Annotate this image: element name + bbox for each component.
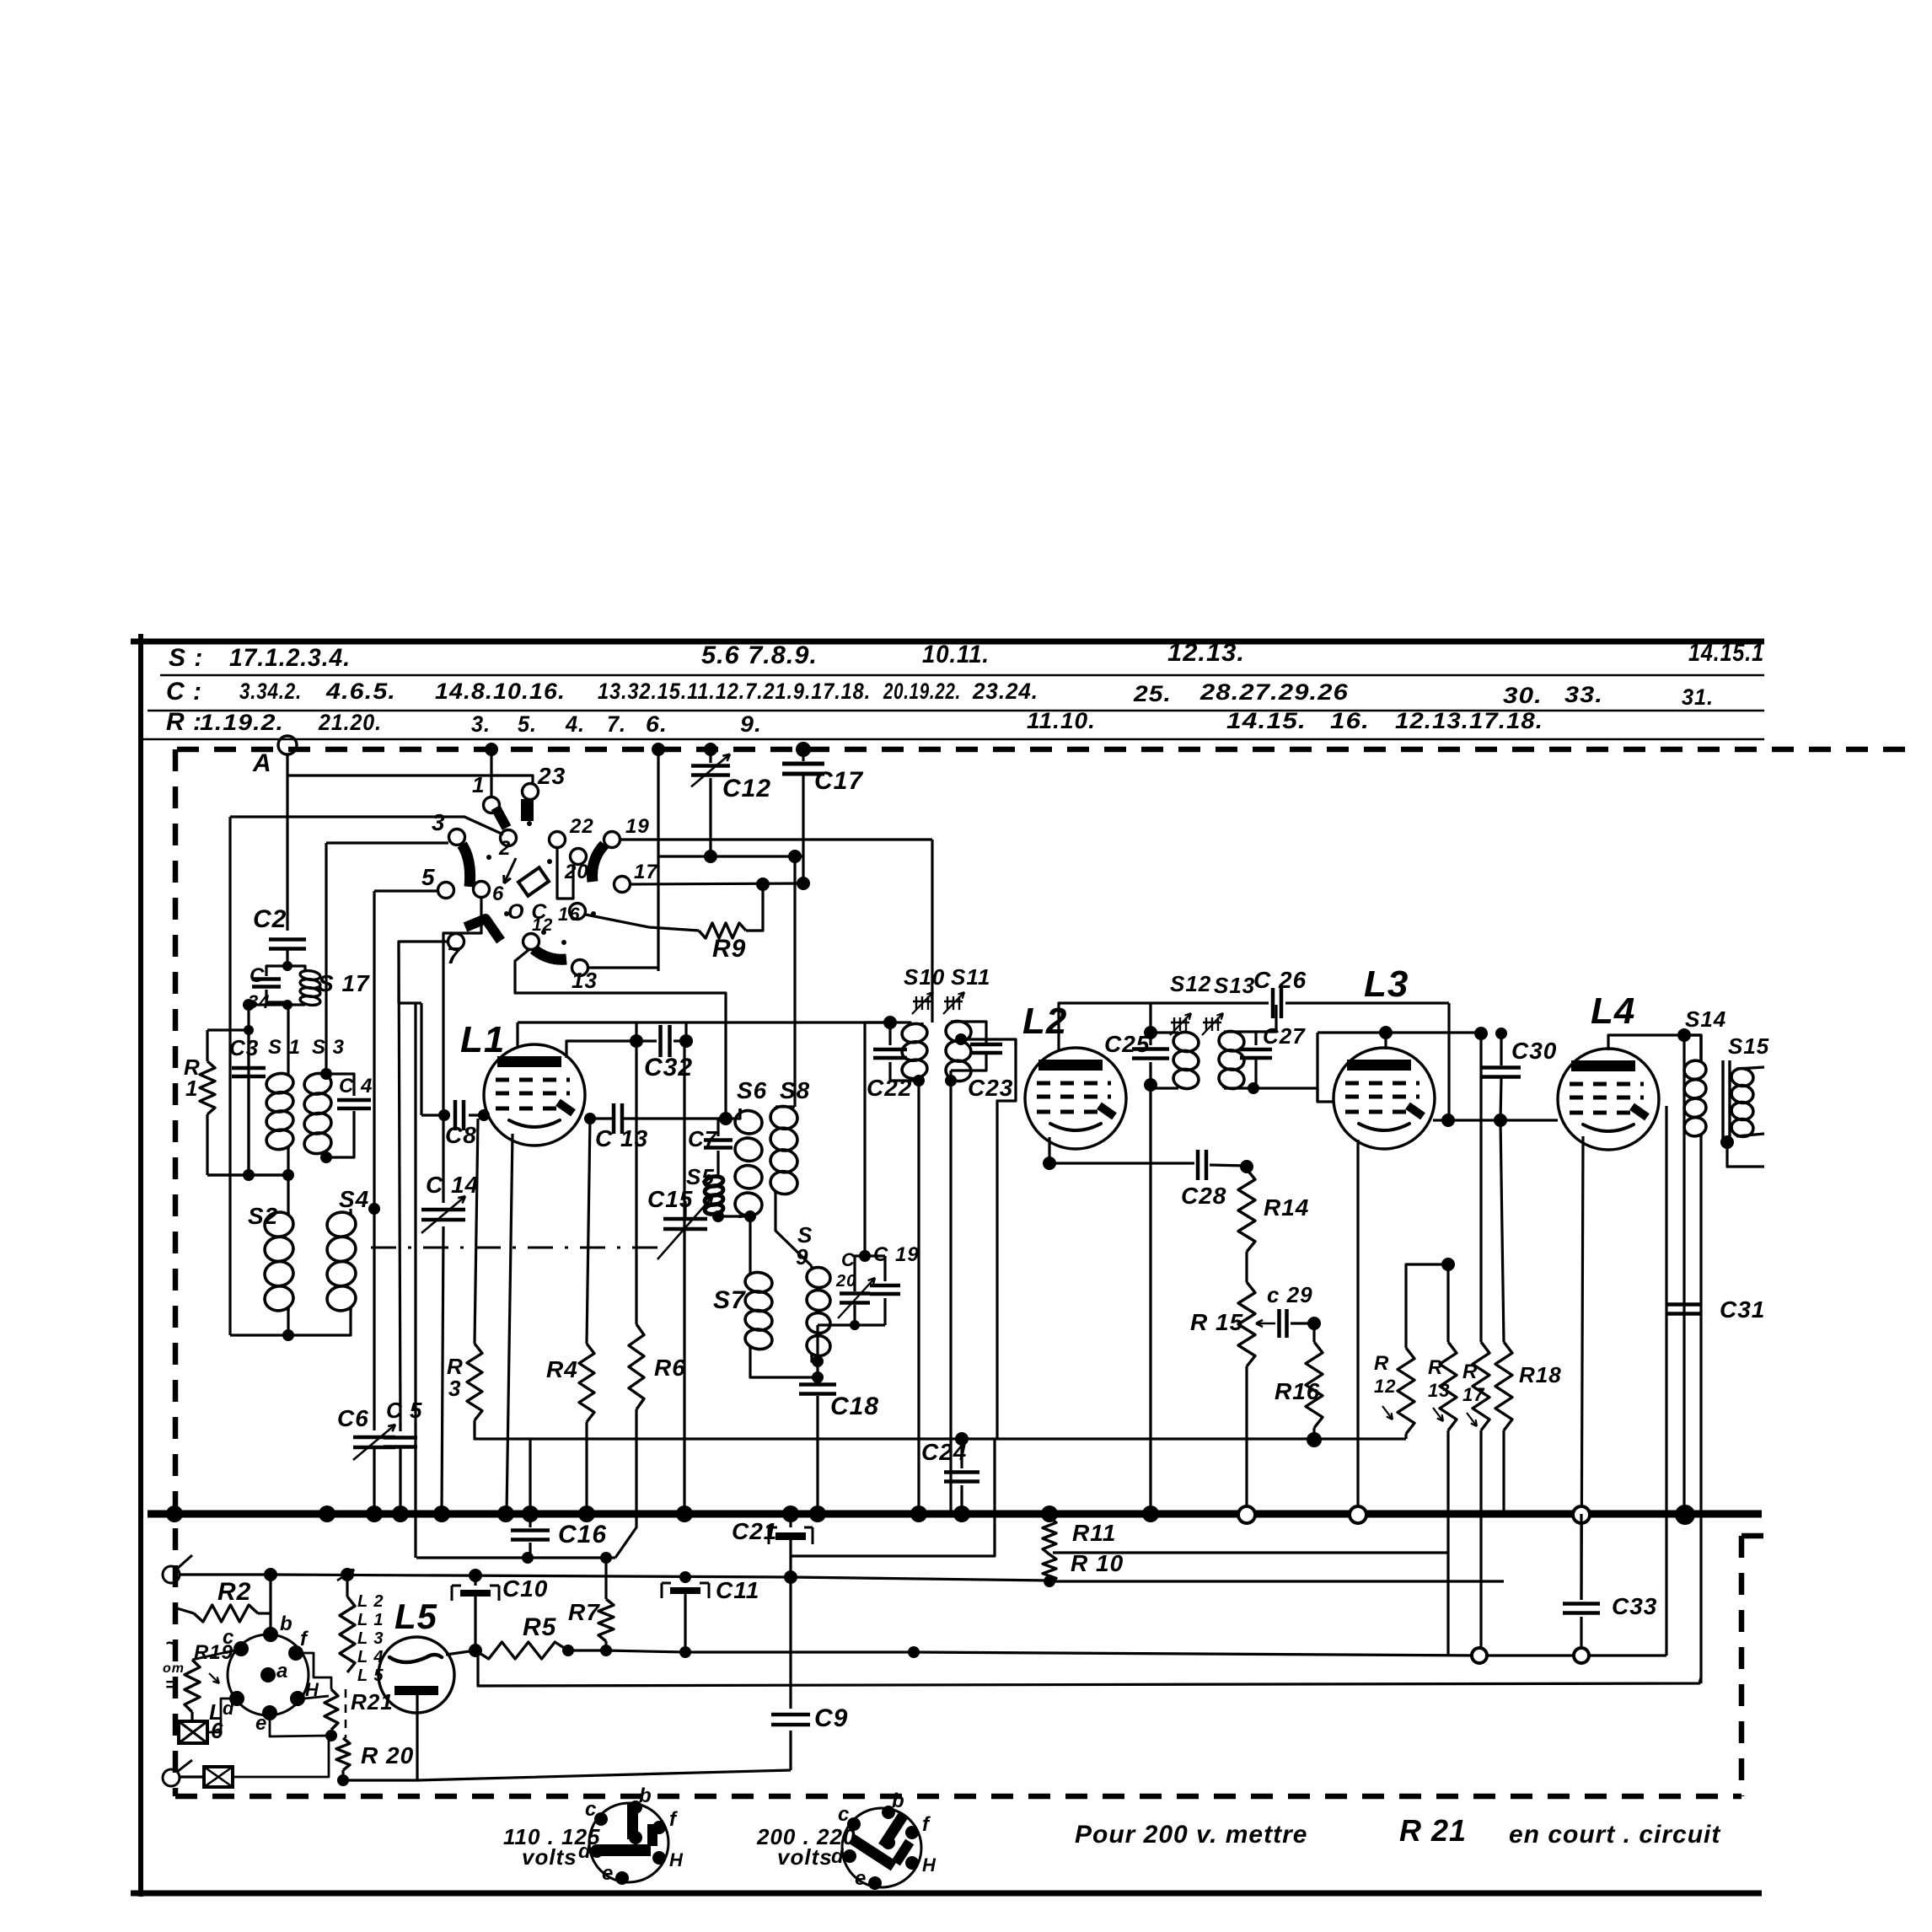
svg-text:f: f [300, 1628, 309, 1650]
svg-text:30.: 30. [1503, 683, 1543, 708]
wire S13 to L3 grid loop [1226, 1070, 1256, 1088]
svg-text:C17: C17 [814, 767, 863, 795]
svg-text:R :: R : [166, 708, 202, 736]
wire L2 cathode bias network [1049, 1162, 1190, 1164]
page border left [138, 634, 143, 1897]
wire L2 plate to C25 S12 [1059, 1003, 1151, 1050]
svg-text:S12: S12 [1170, 971, 1211, 996]
resistor R17 [1473, 1342, 1489, 1430]
wire rotary 12 to mixer grid [515, 950, 726, 1119]
svg-text:14.15.1: 14.15.1 [1688, 639, 1764, 667]
svg-text:5.6 7.8.9.: 5.6 7.8.9. [701, 641, 818, 669]
svg-text:S :: S : [169, 644, 203, 672]
capacitor C18 [816, 1361, 818, 1377]
svg-text:17: 17 [634, 861, 658, 883]
svg-text:31.: 31. [1682, 684, 1714, 710]
svg-text:R21: R21 [351, 1689, 394, 1715]
wire AVC bus horizontal [1146, 1437, 1406, 1440]
svg-text:H: H [922, 1854, 936, 1876]
svg-text:L 2: L 2 [357, 1592, 384, 1611]
svg-text:R11: R11 [1072, 1520, 1116, 1546]
svg-text:d: d [831, 1845, 845, 1868]
svg-text:14.8.10.16.: 14.8.10.16. [435, 679, 566, 704]
wire L5 anode right [442, 1650, 475, 1657]
svg-text:S 3: S 3 [312, 1036, 345, 1059]
svg-text:3.: 3. [471, 711, 491, 737]
svg-text:14.15.: 14.15. [1226, 708, 1307, 733]
IF transformer 1 primary coil [883, 1016, 897, 1029]
resistor R6 [635, 1048, 637, 1324]
svg-text:C12: C12 [722, 775, 771, 802]
IF transformer 2 secondary coil [1222, 1032, 1226, 1034]
svg-text:C27: C27 [1263, 1023, 1306, 1049]
rotary rotor index arrow [504, 858, 516, 883]
wire S4 top to rotary 5 [374, 891, 378, 1209]
table rule under R row [141, 738, 1764, 741]
svg-text:R: R [1374, 1352, 1389, 1375]
svg-text:7: 7 [447, 942, 461, 969]
svg-text:25.: 25. [1133, 681, 1172, 706]
svg-text:R7: R7 [568, 1599, 600, 1625]
svg-text:C: C [250, 964, 265, 987]
output transformer core [1721, 1060, 1724, 1145]
resistor R4 [587, 1119, 590, 1344]
svg-text:f: f [922, 1813, 931, 1836]
rotary rotor segment 7 [465, 919, 501, 941]
table rule under C row [148, 710, 1764, 712]
svg-text:e: e [855, 1867, 867, 1890]
svg-text:6: 6 [492, 883, 504, 905]
svg-text:S8: S8 [780, 1077, 810, 1103]
svg-text:L 1: L 1 [357, 1611, 384, 1629]
svg-text:f: f [669, 1808, 678, 1831]
wire L2 cathode down [1048, 1137, 1050, 1163]
potentiometer R15 [1238, 1282, 1255, 1366]
rotary rotor diamond [518, 867, 549, 896]
wire L3 cathode to bus [1356, 1140, 1359, 1514]
svg-text:5: 5 [421, 864, 436, 890]
svg-text:9: 9 [796, 1244, 808, 1269]
svg-text:11.10.: 11.10. [1027, 708, 1096, 733]
wire L3 plate top [1384, 1033, 1387, 1049]
node A label wire [286, 754, 288, 931]
wire R2 to socket b [269, 1575, 271, 1634]
svg-text:C33: C33 [1612, 1593, 1657, 1619]
svg-text:L3: L3 [1364, 963, 1409, 1005]
wire from 19 down [931, 840, 933, 1022]
wire S15 tap [1720, 1135, 1734, 1149]
svg-text:L 3: L 3 [357, 1629, 384, 1648]
svg-text:21.20.: 21.20. [318, 710, 382, 735]
wire C21 rail to C11 [641, 1576, 685, 1577]
capacitor C8 [399, 1001, 421, 1004]
svg-text:3.34.2.: 3.34.2. [239, 679, 302, 704]
svg-text:R 21: R 21 [1399, 1813, 1467, 1848]
svg-text:S15: S15 [1728, 1033, 1769, 1059]
rotary band switch contacts [484, 797, 500, 813]
svg-text:C 5: C 5 [386, 1398, 422, 1423]
svg-text:C11: C11 [716, 1577, 759, 1603]
wire switch to network [180, 1575, 791, 1577]
mains connector 110V [589, 1803, 668, 1882]
svg-text:4.: 4. [565, 711, 585, 737]
svg-text:23.24.: 23.24. [972, 679, 1038, 704]
wire C16 riser [529, 1439, 531, 1514]
svg-text:6.: 6. [646, 711, 668, 737]
svg-text:e: e [602, 1862, 614, 1885]
svg-text:33.: 33. [1564, 682, 1603, 707]
mains connector 220V [842, 1808, 921, 1887]
svg-text:C2: C2 [253, 905, 287, 933]
tube socket heater diagram [228, 1634, 309, 1715]
ganged tuning dash-dot line [371, 1247, 666, 1249]
svg-text:C25: C25 [1104, 1031, 1150, 1057]
capacitor C17 [802, 749, 804, 761]
svg-text:13.32.15.11.12.7.21.9.17.18.: 13.32.15.11.12.7.21.9.17.18. [598, 679, 871, 704]
svg-text:C30: C30 [1511, 1038, 1557, 1064]
wire fuse to socket [180, 1775, 204, 1778]
svg-text:c: c [585, 1798, 597, 1821]
svg-text:R 20: R 20 [361, 1742, 414, 1768]
wire under C16 [416, 1556, 615, 1559]
svg-text:19: 19 [625, 815, 650, 838]
chassis bus [148, 1511, 1762, 1518]
chassis dashed border left [173, 749, 179, 1796]
svg-text:22: 22 [569, 815, 594, 838]
svg-text:1: 1 [185, 1076, 198, 1101]
wire L1 grid right to C13 [585, 1117, 612, 1119]
resistor R12 [1406, 1264, 1448, 1348]
wire IF feed vertical [863, 1022, 866, 1256]
wire L1 plate rail [516, 1022, 518, 1046]
mains switch upper [163, 1566, 180, 1583]
wire L4 cathode C33 riser [1581, 1136, 1583, 1600]
svg-text:R 10: R 10 [1071, 1550, 1124, 1576]
svg-text:R: R [1462, 1360, 1478, 1383]
wire vertical left column [228, 817, 231, 1335]
rotary rotor segment 3-6 [462, 845, 470, 887]
svg-text:=: = [165, 1674, 177, 1695]
wire left nodes junction [207, 1173, 288, 1177]
wire R5 R7 node [568, 1649, 606, 1651]
rotary rotor segment 19-17 [593, 845, 604, 882]
svg-text:16: 16 [558, 904, 580, 925]
capacitor C32 [635, 1022, 637, 1041]
wire L5 cathode down [416, 1695, 418, 1780]
mains switch lower [163, 1769, 180, 1786]
wire S13 top to C26 corner [1256, 1005, 1276, 1032]
chassis dashed border bottom [175, 1794, 1741, 1800]
svg-text:C6: C6 [337, 1405, 369, 1431]
rotary rotor segment 23 [521, 799, 534, 821]
svg-text:2: 2 [498, 837, 511, 860]
rotary small index dots [527, 821, 532, 826]
svg-text:S 1: S 1 [268, 1036, 301, 1059]
resistor R11 [1043, 1517, 1056, 1554]
wire IF1 secondary to L2 grid [961, 1039, 1016, 1045]
svg-text:S4: S4 [339, 1186, 369, 1212]
svg-text:C21: C21 [732, 1518, 777, 1544]
wire antenna to rotary 23 [287, 775, 533, 784]
svg-text:volts: volts [522, 1844, 577, 1870]
wire L4 grid left [1500, 1119, 1558, 1121]
capacitor C16 [529, 1514, 531, 1527]
svg-text:c 29: c 29 [1267, 1282, 1313, 1307]
wire R15 bottom to bus [1245, 1366, 1248, 1513]
svg-text:S7: S7 [713, 1286, 746, 1314]
svg-text:a: a [276, 1660, 288, 1682]
svg-text:12.13.: 12.13. [1167, 639, 1245, 667]
svg-text:C :: C : [166, 678, 202, 706]
wire C21 bottom link [791, 1439, 995, 1556]
svg-text:23: 23 [537, 763, 566, 789]
svg-text:R16: R16 [1275, 1378, 1320, 1404]
resistor R10 [1043, 1554, 1056, 1583]
svg-text:C8: C8 [445, 1122, 477, 1148]
rotary rotor segment 12-13 [534, 949, 566, 959]
wire R20 bottom [343, 1770, 791, 1780]
svg-text:b: b [280, 1613, 293, 1635]
svg-text:R9: R9 [712, 935, 746, 963]
svg-text:R5: R5 [523, 1613, 557, 1641]
wire R10 tap [1049, 1580, 1504, 1582]
svg-text:13: 13 [1428, 1380, 1450, 1401]
svg-text:S14: S14 [1685, 1006, 1726, 1032]
resistor R20 [336, 1738, 350, 1770]
svg-text:C18: C18 [830, 1393, 879, 1420]
svg-text:R 15: R 15 [1190, 1309, 1243, 1335]
resistor R16 [1312, 1323, 1315, 1342]
fuse symbol [204, 1767, 233, 1787]
wire rotary 22-20 link [557, 848, 573, 899]
svg-text:L5: L5 [394, 1597, 437, 1636]
svg-text:17: 17 [1462, 1384, 1485, 1405]
wire to rotary 2 [230, 817, 503, 835]
svg-text:R6: R6 [654, 1355, 686, 1381]
wire rotary 17 right [631, 883, 803, 884]
svg-text:H: H [669, 1849, 684, 1870]
heater wire return [478, 1650, 1701, 1686]
wire L4 plate top to S14 [1608, 1035, 1684, 1050]
wire rotary 3 feed [326, 841, 448, 844]
heater chain resistor [340, 1597, 355, 1672]
svg-text:d: d [223, 1698, 234, 1719]
svg-text:C 14: C 14 [426, 1172, 479, 1198]
resistor R13 [1448, 1120, 1450, 1264]
coil S17 with C34 [266, 966, 287, 976]
svg-text:C 4: C 4 [339, 1075, 373, 1097]
svg-text:C3: C3 [229, 1035, 259, 1060]
antenna terminal A [278, 736, 297, 754]
wire rotary 1 up [490, 749, 492, 797]
wire socket links [192, 1650, 234, 1660]
svg-text:R18: R18 [1519, 1362, 1562, 1387]
chassis dashed border right top stub [1741, 1533, 1770, 1539]
svg-text:1: 1 [472, 772, 485, 797]
svg-text:R: R [1428, 1356, 1443, 1379]
lamp L6 [179, 1721, 207, 1743]
wire S17 bottom to left rail [249, 1003, 287, 1006]
wire oscillator node horizontal [658, 855, 803, 857]
wire L1 screen [566, 1041, 657, 1058]
wire plate line to C26 [1447, 1003, 1450, 1120]
wire L2 grid entry [997, 1039, 1016, 1439]
svg-text:S6: S6 [737, 1077, 767, 1103]
svg-text:L4: L4 [1591, 990, 1635, 1032]
svg-text:1.19.2.: 1.19.2. [200, 710, 284, 735]
wire rotary 7 down [399, 942, 448, 1003]
IF transformer 2 primary coil [1151, 1031, 1178, 1033]
wire rotary 19 right [620, 838, 932, 840]
svg-text:C 13: C 13 [595, 1125, 648, 1151]
svg-text:S2: S2 [248, 1203, 278, 1229]
coil S14 [1684, 1035, 1701, 1060]
svg-text:28.27.29.26: 28.27.29.26 [1199, 679, 1349, 705]
resistor R21 [325, 1689, 338, 1730]
svg-text:S11: S11 [951, 964, 990, 990]
resistor R14 [1238, 1169, 1255, 1252]
bus junction dots [166, 1505, 183, 1522]
svg-text:A: A [252, 749, 272, 777]
svg-text:S10: S10 [904, 964, 945, 990]
wire S2 S4 common to chassis rail [230, 1334, 288, 1336]
wire R1 top tie [207, 1028, 249, 1031]
svg-text:12.13.17.18.: 12.13.17.18. [1395, 708, 1543, 733]
svg-text:R4: R4 [546, 1356, 578, 1382]
svg-text:5.: 5. [518, 711, 537, 737]
svg-text:17.1.2.3.4.: 17.1.2.3.4. [229, 644, 351, 672]
svg-text:20.19.22.: 20.19.22. [883, 679, 961, 704]
wire R11 tap [1053, 1551, 1447, 1554]
wire oscillator node 2 [797, 877, 810, 890]
wire rotary 13 to node [588, 966, 658, 969]
svg-text:13: 13 [572, 968, 598, 993]
wire rotary 16 to R9 [586, 915, 699, 931]
wire L4 left rail down [1665, 1106, 1667, 1656]
IF transformer 1 secondary coil [949, 1022, 953, 1024]
svg-text:9.: 9. [740, 711, 762, 737]
svg-text:C31: C31 [1720, 1296, 1765, 1323]
svg-text:L1: L1 [460, 1019, 505, 1060]
svg-text:C10: C10 [502, 1575, 548, 1602]
wire rotary 13 node down [657, 749, 659, 968]
svg-text:R14: R14 [1264, 1194, 1309, 1221]
svg-text:C16: C16 [558, 1521, 607, 1548]
chassis dashed border right [1739, 1536, 1745, 1796]
resistor R18 [1500, 1120, 1504, 1342]
wire osc section vertical [414, 1003, 416, 1558]
svg-text:20: 20 [564, 861, 589, 883]
wire L1 cathode to bus [507, 1134, 513, 1514]
rotary rotor segment 1-2 [496, 808, 507, 828]
svg-text:Pour 200 v. mettre: Pour 200 v. mettre [1075, 1821, 1307, 1849]
svg-text:S13: S13 [1214, 973, 1255, 998]
svg-text:O C: O C [507, 900, 547, 924]
svg-text:b: b [639, 1784, 652, 1807]
svg-text:c: c [838, 1803, 850, 1826]
svg-text:b: b [892, 1790, 905, 1812]
wire S14 down rail [1682, 1038, 1685, 1513]
svg-text:C9: C9 [814, 1704, 848, 1732]
svg-text:10.11.: 10.11. [922, 641, 990, 668]
wire C32 right down [683, 1041, 685, 1513]
heater wire lower [606, 1650, 1666, 1656]
svg-text:7.: 7. [607, 711, 626, 737]
junction dashed rail [485, 743, 498, 756]
table rule under S row [160, 674, 1764, 677]
wire L3 top rail [1318, 1031, 1481, 1033]
svg-text:R2: R2 [217, 1578, 251, 1606]
wire osc to IF1 feed [865, 1021, 890, 1023]
svg-text:4.6.5.: 4.6.5. [325, 679, 396, 704]
wire osc to C32 area [793, 856, 796, 1107]
svg-text:12: 12 [1374, 1376, 1396, 1397]
wire L3 grid box [1317, 1033, 1318, 1088]
chassis dashed border top [177, 747, 1910, 753]
wire L3 out to L4 [1433, 1119, 1500, 1121]
resistor R1 [206, 1030, 208, 1061]
resistor R9 [699, 923, 746, 938]
svg-text:volts: volts [777, 1844, 833, 1870]
page border bottom [131, 1891, 1762, 1897]
svg-text:16.: 16. [1330, 708, 1370, 733]
wire rotary 6 down [443, 898, 481, 1115]
svg-text:d: d [578, 1840, 592, 1863]
variable capacitor C12 [709, 749, 711, 763]
svg-text:L2: L2 [1022, 1001, 1067, 1042]
svg-text:C28: C28 [1181, 1183, 1226, 1209]
svg-text:3: 3 [432, 809, 446, 835]
wire lamp loop [192, 1639, 211, 1660]
svg-text:C23: C23 [968, 1075, 1013, 1101]
svg-text:en court . circuit: en court . circuit [1509, 1821, 1721, 1849]
svg-text:~: ~ [165, 1630, 179, 1656]
capacitor C13 [612, 1103, 616, 1134]
resistor R3 [475, 1119, 478, 1344]
svg-text:3: 3 [448, 1376, 461, 1401]
svg-text:e: e [255, 1712, 267, 1735]
page border top [131, 639, 1764, 645]
